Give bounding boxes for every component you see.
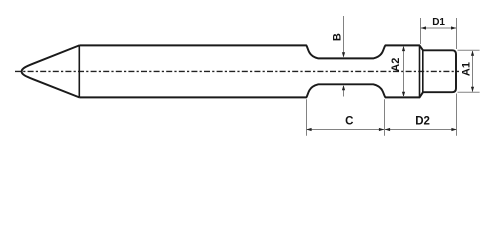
dimension B leader lines	[343, 16, 345, 97]
label A2	[390, 58, 402, 72]
dimension D1 line	[421, 27, 456, 29]
svg-text:A2: A2	[390, 58, 402, 72]
dimension D2 arrows	[385, 128, 457, 131]
label B	[331, 33, 343, 41]
svg-text:C: C	[345, 116, 353, 128]
chamfer edge line	[422, 50, 424, 92]
centerline	[15, 70, 459, 72]
tip/body junction line	[78, 45, 80, 97]
dimension A1 extension lines	[458, 50, 480, 92]
dimension B arrows	[342, 52, 345, 90]
dimension D2 line	[385, 129, 457, 131]
dimension C line	[307, 129, 385, 131]
dimension A2 line	[403, 46, 405, 97]
dimension A1 line	[472, 51, 474, 92]
chisel body outline	[22, 45, 456, 97]
dimension C arrows	[306, 128, 384, 131]
dimension D1 extension lines	[421, 18, 457, 136]
svg-text:A1: A1	[461, 62, 473, 76]
label D1	[432, 17, 445, 28]
label A1	[461, 62, 473, 76]
dimension A2 arrows	[402, 46, 405, 97]
dimension D1 arrows	[421, 26, 457, 29]
label C	[345, 116, 353, 128]
dimension C extension lines	[307, 99, 385, 136]
collar face line	[419, 45, 421, 97]
svg-text:B: B	[331, 33, 343, 41]
svg-text:D2: D2	[415, 116, 430, 128]
label D2	[415, 116, 430, 128]
svg-text:D1: D1	[432, 17, 445, 28]
dimension A1 arrows	[471, 51, 474, 92]
